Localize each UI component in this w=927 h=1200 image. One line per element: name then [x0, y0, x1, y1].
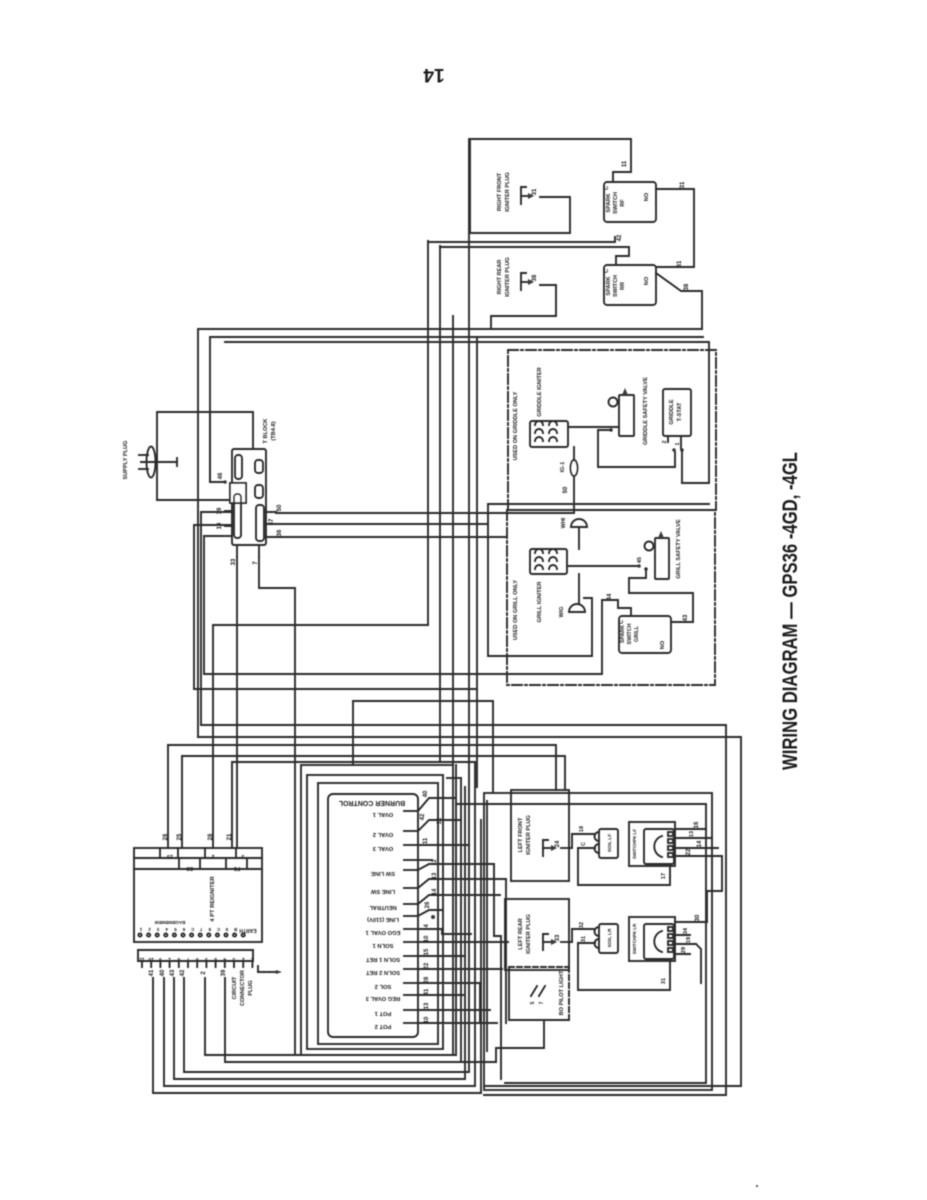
T block slot 4 [255, 485, 263, 498]
svg-text:SPARK: SPARK [606, 193, 612, 212]
wire 39 long loop [201, 512, 232, 725]
svg-text:3: 3 [156, 927, 159, 932]
IG-1 electrode [573, 447, 575, 513]
4 pt reigniter box [134, 848, 262, 942]
bus vertical 494-501 chain [494, 864, 501, 1079]
svg-text:WIRING DIAGRAM — GPS36 -4GD, -: WIRING DIAGRAM — GPS36 -4GD, -4GL [779, 452, 802, 770]
wire plug col 40 [164, 978, 475, 1086]
svg-text:T BLOCK: T BLOCK [263, 419, 269, 444]
svg-text:26: 26 [163, 833, 169, 840]
junction dot griddle valve [609, 428, 613, 432]
svg-text:14: 14 [697, 840, 703, 847]
svg-text:IG-1: IG-1 [560, 462, 566, 473]
4pt second strip [134, 868, 262, 870]
svg-text:22: 22 [686, 848, 692, 855]
svg-text:C: C [604, 186, 610, 190]
svg-text:46: 46 [218, 472, 224, 479]
burner nested frame inner [318, 783, 438, 1044]
svg-text:SOLN 1 RET: SOLN 1 RET [365, 956, 400, 962]
svg-text:40: 40 [160, 969, 166, 976]
wire pin stub 4 [418, 859, 432, 861]
wire pin25 horizontal [181, 756, 183, 848]
wire RR NO diagonal 38 [656, 273, 702, 329]
wire supply top to T block [157, 412, 253, 500]
svg-text:14: 14 [423, 64, 445, 85]
T block slot 1 [235, 455, 242, 479]
wire switch LF 14 [675, 847, 718, 849]
svg-text:8: 8 [208, 927, 211, 932]
svg-text:28: 28 [424, 976, 430, 983]
svg-text:5: 5 [530, 1001, 536, 1004]
wire t-stat return [681, 450, 683, 483]
bo pilot light box [509, 967, 569, 1020]
svg-text:19: 19 [686, 937, 692, 943]
wire plug col 43 [174, 978, 465, 1079]
svg-text:41: 41 [424, 988, 430, 995]
bus vertical 428 [427, 241, 429, 625]
wire 44 to grill switch [574, 600, 631, 674]
svg-text:C: C [216, 927, 220, 932]
svg-text:12: 12 [437, 817, 443, 824]
svg-text:42: 42 [420, 813, 426, 820]
griddle safety valve body [619, 395, 634, 436]
svg-text:GRIDDLE IGNITER: GRIDDLE IGNITER [537, 367, 543, 416]
wire 36 to grill box [266, 536, 507, 538]
right section frame A [484, 793, 712, 1090]
svg-text:34: 34 [683, 927, 689, 934]
griddle dash-dot box [508, 350, 716, 510]
svg-text:13: 13 [424, 1002, 430, 1009]
svg-text:39: 39 [217, 507, 223, 514]
svg-text:REG OVAL 3: REG OVAL 3 [365, 995, 400, 1001]
svg-text:OVAL 1: OVAL 1 [372, 811, 393, 817]
bus vertical 440 [439, 246, 441, 762]
pilot lamp symbol [531, 986, 537, 996]
burner control box [328, 794, 418, 1037]
svg-text:POT 1: POT 1 [374, 1010, 392, 1016]
4pt terminal circles [138, 933, 141, 936]
T block slot 5 [256, 505, 264, 541]
grill outer solid box [488, 504, 709, 656]
svg-text:2: 2 [201, 971, 207, 975]
svg-text:2: 2 [148, 927, 151, 932]
svg-text:LEFT REAR: LEFT REAR [518, 918, 524, 949]
wire pin soln1 10 [418, 941, 442, 943]
wire RF plug to bus [470, 197, 570, 233]
svg-text:SOIL LF: SOIL LF [607, 834, 613, 852]
svg-text:21: 21 [227, 833, 233, 840]
svg-text:(TB4-8): (TB4-8) [271, 421, 277, 440]
svg-text:5: 5 [174, 927, 177, 932]
left front igniter plug box [511, 790, 569, 881]
WHI electrode dome [571, 519, 587, 527]
svg-text:SOLN 2 RET: SOLN 2 RET [365, 969, 400, 975]
svg-text:7: 7 [539, 1001, 545, 1004]
grill safety valve body [655, 538, 669, 579]
wire LF plug stub [561, 847, 572, 849]
wire 10 long loop [194, 525, 232, 689]
4pt connector strip [138, 949, 253, 951]
wire LR U loop 31 [578, 943, 670, 990]
svg-text:36: 36 [277, 529, 283, 536]
svg-text:T-STAT: T-STAT [677, 402, 683, 421]
LR plug symbol [543, 934, 548, 950]
griddle igniter coil [530, 421, 568, 447]
spark switch RR box U2 [604, 265, 656, 305]
svg-text:GRILL IGNITER: GRILL IGNITER [537, 582, 543, 623]
junction dots t-stat [672, 448, 676, 452]
junction dots grill valve [637, 564, 641, 568]
wire switch LF 22 [675, 856, 722, 891]
svg-text:EARTH: EARTH [239, 927, 257, 933]
svg-text:USED ON GRILL ONLY: USED ON GRILL ONLY [513, 580, 519, 641]
wire coil to griddle valve [568, 426, 619, 428]
svg-text:44: 44 [607, 593, 613, 600]
wire pin oval1 40 [418, 798, 456, 811]
svg-text:LINE (110V): LINE (110V) [367, 916, 399, 922]
svg-text:31: 31 [581, 936, 587, 942]
wire grill valve to switch [629, 569, 693, 622]
wire plug col 41 [153, 978, 481, 1093]
svg-text:BURNER CONTROL: BURNER CONTROL [338, 799, 405, 806]
svg-text:43: 43 [683, 614, 689, 621]
4pt top strip [134, 857, 262, 859]
svg-text:GRILL: GRILL [634, 625, 640, 642]
wire pin pot2 10 [418, 1022, 442, 1024]
grill igniter coil [530, 549, 567, 574]
wire switch LR 19 [675, 943, 696, 945]
coil LF box [599, 829, 618, 858]
wire pin oval3 11 [418, 844, 469, 846]
T block left dashes [222, 535, 231, 537]
wire plug col 2 [205, 978, 456, 1055]
wire coil to grill valve [567, 565, 637, 567]
svg-text:SOL 2: SOL 2 [375, 983, 392, 989]
svg-text:41: 41 [149, 969, 155, 976]
svg-text:SWITCH: SWITCH [627, 623, 633, 644]
svg-text:15: 15 [424, 948, 430, 955]
wire griddle loop top [225, 342, 709, 483]
wire switch LR 30 [675, 921, 707, 923]
svg-text:16: 16 [694, 821, 700, 828]
svg-text:SWITCHPK LF: SWITCHPK LF [632, 829, 637, 859]
wire mid horizontal 337 [210, 337, 703, 482]
svg-text:SUPPLY PLUG: SUPPLY PLUG [123, 441, 129, 480]
svg-text:SOLN 1: SOLN 1 [372, 942, 394, 948]
svg-text:C: C [604, 269, 610, 273]
T block slot 3 [255, 460, 263, 473]
junction dot neutral [431, 915, 435, 919]
wire B horizontal 44 return [204, 536, 574, 674]
svg-text:9: 9 [225, 927, 228, 932]
bus vertical 477 [476, 337, 478, 787]
wire pin oval2 42 [418, 820, 461, 831]
right front igniter plug symbol [521, 187, 526, 204]
spark switch RF box U1 [604, 182, 656, 222]
WIG electrode dome [569, 604, 585, 612]
svg-text:31: 31 [661, 978, 667, 984]
svg-text:4: 4 [165, 927, 168, 932]
wire plug col 39 [225, 978, 496, 1062]
svg-text:13: 13 [689, 831, 695, 837]
svg-text:EGO OVAL 1: EGO OVAL 1 [365, 929, 401, 935]
svg-text:GRILL SAFETY VALVE: GRILL SAFETY VALVE [676, 519, 682, 579]
svg-text:22: 22 [424, 962, 430, 969]
wire D horizontal [201, 725, 726, 1095]
svg-text:RIGHT FRONT: RIGHT FRONT [497, 172, 503, 211]
svg-text:IGNITER PLUG: IGNITER PLUG [526, 914, 532, 954]
svg-text:3: 3 [241, 853, 244, 859]
wire pin regoval 41 [418, 994, 442, 996]
wire RF NO to RR 31 loop [656, 189, 694, 267]
svg-text:4 PT REIGNITER: 4 PT REIGNITER [210, 875, 216, 921]
switch LF box [629, 822, 675, 866]
svg-text:24: 24 [555, 840, 561, 847]
svg-text:33: 33 [555, 934, 561, 941]
svg-text:10: 10 [424, 1016, 430, 1023]
right rear igniter plug symbol [521, 273, 526, 290]
svg-text:15: 15 [167, 853, 173, 859]
svg-text:40: 40 [423, 790, 429, 797]
svg-text:26: 26 [425, 901, 431, 908]
burner nested frame mid [307, 775, 443, 1049]
svg-text:SWITCH: SWITCH [613, 275, 619, 297]
wire pin26 horizontal [167, 745, 169, 848]
svg-text:RIGHT REAR: RIGHT REAR [497, 260, 503, 295]
bus vertical 469 [468, 139, 470, 1072]
svg-text:WIG: WIG [559, 607, 565, 618]
svg-text:IGNITER PLUG: IGNITER PLUG [505, 257, 511, 297]
bus vertical 481 [480, 820, 482, 1093]
wire pin soln1ret 15 [418, 955, 442, 957]
svg-text:25: 25 [177, 833, 183, 840]
svg-text:29: 29 [681, 947, 687, 953]
T block notch [230, 483, 246, 503]
bus vertical 506 [505, 879, 507, 1023]
svg-text:45: 45 [637, 557, 643, 563]
wire LF U loop 17 [578, 848, 670, 885]
wire pin ego 4 [418, 928, 442, 930]
wire switch LR 19 down [696, 944, 701, 983]
wire pin sw line 13 [418, 879, 506, 888]
wire C horizontal [194, 688, 477, 690]
svg-text:10: 10 [424, 935, 430, 942]
svg-text:LINE SW: LINE SW [370, 888, 395, 894]
svg-text:1: 1 [139, 927, 142, 932]
wire griddle valve to t-stat [598, 430, 675, 467]
wire supply bottom to T block [157, 499, 232, 501]
svg-text:4: 4 [424, 924, 430, 928]
svg-text:18: 18 [579, 826, 585, 832]
svg-text:SPARK: SPARK [606, 276, 612, 295]
svg-text:SWITCH: SWITCH [613, 192, 619, 214]
svg-text:C: C [581, 842, 587, 846]
switch LR box [629, 917, 675, 961]
svg-text:2: 2 [211, 853, 214, 859]
svg-text:13: 13 [432, 872, 438, 879]
svg-text:43: 43 [170, 969, 176, 976]
wire pin neutral 26 [418, 910, 442, 916]
wire pin line sw 14 [418, 895, 500, 904]
LF plug symbol [543, 840, 548, 856]
griddle safety valve bump [609, 398, 618, 407]
svg-text:SOIL LR: SOIL LR [607, 928, 613, 947]
svg-text:B: B [233, 927, 237, 932]
svg-text:OVAL 3: OVAL 3 [372, 845, 393, 851]
wire supply branch to 46 [210, 412, 224, 482]
svg-text:SW LINE: SW LINE [371, 870, 395, 876]
bus vertical 465 [464, 787, 466, 1079]
svg-text:NO: NO [644, 276, 650, 285]
spark switch grill box U3 [619, 616, 671, 653]
wire pin 2 [418, 864, 494, 870]
junction dot 46 [223, 480, 227, 484]
wire 7 jog [259, 557, 295, 1055]
wire RR plug loop [491, 285, 556, 328]
svg-text:WHI: WHI [561, 517, 567, 528]
wire pin sol2 28 [418, 982, 442, 984]
wire D2 horizontal [198, 737, 741, 1086]
svg-text:28: 28 [208, 833, 214, 840]
svg-text:BAGBMBMBW: BAGBMBMBW [154, 920, 186, 925]
svg-text:SPARK: SPARK [620, 625, 626, 643]
svg-text:CIRCUIT: CIRCUIT [232, 976, 238, 999]
svg-text:RR: RR [620, 282, 626, 290]
wire pin soln2ret 22 [418, 968, 442, 970]
svg-text:NO: NO [660, 640, 666, 649]
svg-text:GRIDDLE: GRIDDLE [669, 399, 675, 424]
svg-text:30: 30 [695, 914, 701, 921]
burner nested frame outer [301, 765, 453, 1055]
svg-text:11: 11 [622, 160, 628, 167]
svg-text:17: 17 [661, 873, 667, 879]
svg-text:42: 42 [180, 969, 186, 976]
svg-text:OVAL 2: OVAL 2 [373, 831, 393, 837]
stray mark bottom right [756, 1185, 758, 1187]
svg-text:SWITCHPK LR: SWITCHPK LR [632, 923, 637, 954]
grill safety valve bump [645, 542, 654, 551]
svg-text:C: C [619, 620, 625, 624]
svg-text:CONNECTOR: CONNECTOR [240, 970, 246, 1006]
wire A horizontal [213, 625, 428, 848]
wire top feed from node 11 run [470, 139, 631, 233]
svg-text:PLUG: PLUG [248, 980, 254, 996]
svg-text:BO PILOT LIGHT: BO PILOT LIGHT [559, 970, 565, 1015]
wire grill return to frame [352, 701, 354, 765]
right section frame B [456, 804, 706, 1083]
wire LR plug stub [561, 941, 572, 943]
svg-text:39: 39 [221, 969, 227, 976]
wire switch LF 16 [675, 828, 706, 830]
svg-text:31: 31 [680, 181, 686, 188]
T block body TB4-8 [232, 449, 266, 545]
wire pilot light [496, 1020, 544, 1062]
svg-text:NEUTRAL: NEUTRAL [369, 904, 397, 910]
4pt pin ticks [141, 961, 143, 967]
wire 47 to grill box [266, 523, 488, 525]
svg-text:50: 50 [277, 504, 283, 511]
svg-text:NO: NO [644, 192, 650, 201]
wire 42 pair b [440, 247, 629, 265]
grill valve arrow [658, 531, 664, 538]
svg-text:32: 32 [579, 922, 585, 928]
wire plug col 42 [184, 978, 469, 1072]
wire pin pot1 13 [418, 1009, 442, 1011]
wire 38 long horizontal [198, 329, 702, 737]
svg-text:31: 31 [677, 260, 683, 267]
wire 42 pair a [428, 237, 615, 242]
svg-text:31: 31 [532, 188, 538, 195]
bus vertical 453 [452, 316, 454, 765]
coil LR box [599, 924, 618, 953]
bus vertical 461 [460, 778, 462, 1062]
svg-text:14: 14 [432, 888, 438, 895]
svg-text:LEFT FRONT: LEFT FRONT [518, 817, 524, 852]
bus vertical 487 [486, 801, 488, 1051]
svg-text:C8: C8 [186, 865, 193, 871]
supply plug symbol [147, 447, 156, 478]
svg-text:IGNITER PLUG: IGNITER PLUG [505, 172, 511, 212]
T block slot 2 [234, 494, 241, 538]
svg-text:C: C [190, 927, 194, 932]
griddle t-stat box [663, 389, 691, 436]
svg-text:7: 7 [199, 927, 202, 932]
left rear igniter plug box [505, 899, 569, 970]
wire E horizontal [232, 762, 475, 848]
svg-text:GRIDDLE SAFETY VALVE: GRIDDLE SAFETY VALVE [643, 377, 649, 445]
svg-text:USED ON GRIDDLE ONLY: USED ON GRIDDLE ONLY [513, 391, 519, 460]
wire 50 to griddle igniter [276, 512, 574, 514]
svg-text:POT 2: POT 2 [375, 1023, 392, 1029]
grill dash-dot box [507, 510, 715, 685]
svg-text:F5: F5 [234, 865, 240, 871]
svg-text:11: 11 [423, 837, 429, 844]
griddle valve arrow [622, 388, 628, 395]
svg-text:42: 42 [617, 234, 623, 241]
svg-text:6: 6 [182, 927, 185, 932]
svg-text:50: 50 [563, 486, 569, 493]
svg-text:38: 38 [532, 274, 538, 281]
bus vertical 456 [455, 765, 457, 1055]
wire 33 vertical [236, 557, 238, 848]
circuit connector arrow [258, 971, 276, 973]
svg-text:RF: RF [620, 199, 626, 207]
svg-text:38: 38 [684, 283, 690, 290]
svg-text:IGNITER PLUG: IGNITER PLUG [526, 815, 532, 855]
